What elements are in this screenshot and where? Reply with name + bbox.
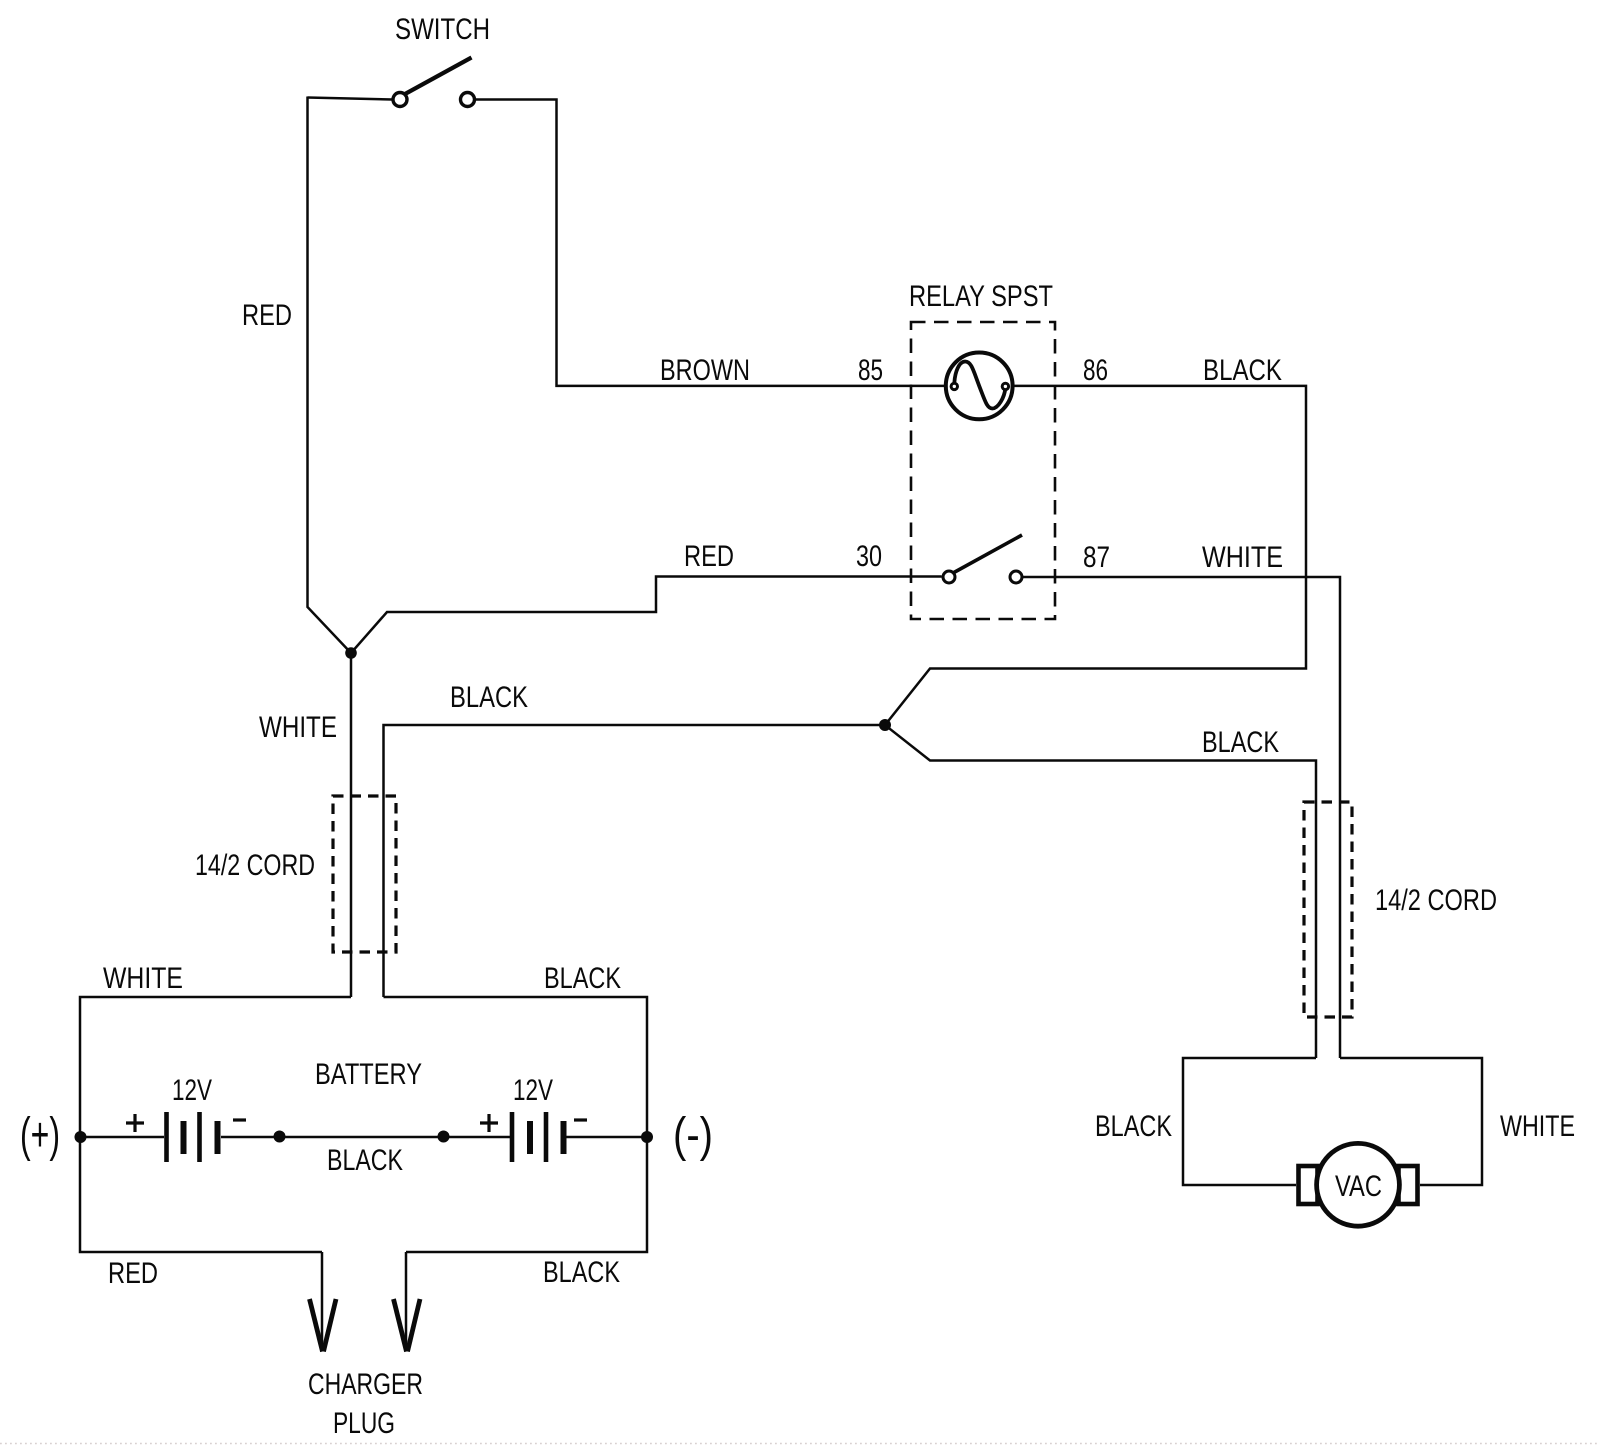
svg-text:14/2 CORD: 14/2 CORD [195, 849, 315, 882]
node battery (-) terminal [641, 1131, 653, 1143]
charger plug lead left [321, 1252, 324, 1348]
wire white: junction J1 down to battery [350, 653, 353, 997]
motor M1 body [1317, 1143, 1400, 1226]
svg-text:RED: RED [108, 1257, 158, 1290]
node J2 junction [879, 719, 891, 731]
svg-text:CHARGER: CHARGER [308, 1368, 423, 1401]
svg-text:BROWN: BROWN [660, 354, 750, 387]
svg-text:RELAY SPST: RELAY SPST [909, 280, 1053, 313]
wire white: relay pin 87 to vac motor drop [1023, 577, 1340, 1058]
charger plug lead right [405, 1252, 408, 1348]
node battery mid left [274, 1131, 286, 1143]
wire red vertical from switch to junction [308, 97, 352, 654]
node battery (+) terminal [75, 1131, 87, 1143]
svg-text:BLACK: BLACK [1202, 726, 1279, 759]
svg-text:12V: 12V [513, 1074, 553, 1107]
wire black: junction J2 to battery negative drop [384, 725, 886, 997]
wire switch left lead [308, 98, 393, 100]
svg-text:BLACK: BLACK [450, 681, 528, 714]
svg-text:(-): (-) [673, 1109, 713, 1162]
battery cell B1 (12V) [167, 1112, 218, 1162]
svg-text:WHITE: WHITE [259, 711, 337, 744]
relay coil [946, 353, 1013, 420]
svg-text:BLACK: BLACK [544, 962, 621, 995]
svg-text:WHITE: WHITE [1202, 541, 1283, 574]
wire battery internal [80, 1136, 647, 1139]
wire red from junction to relay pin 30 [351, 577, 942, 654]
charger plug arrow right [394, 1299, 421, 1352]
svg-text:12V: 12V [172, 1074, 212, 1107]
motor M1 terminals [1299, 1166, 1418, 1204]
charger plug arrow left [310, 1299, 337, 1352]
battery cell B2 (12V) [512, 1112, 564, 1162]
label - (B1) [233, 1118, 246, 1121]
svg-text:30: 30 [856, 540, 882, 573]
svg-text:86: 86 [1083, 354, 1108, 387]
svg-text:(+): (+) [20, 1109, 60, 1162]
svg-text:RED: RED [684, 540, 734, 573]
wire black: relay pin 86 down-left to junction J2 [885, 386, 1306, 725]
relay contact arm [943, 535, 1022, 583]
cord grommet right (14/2 cord) [1304, 802, 1352, 1017]
svg-text:SWITCH: SWITCH [395, 13, 490, 46]
svg-text:BLACK: BLACK [1203, 354, 1282, 387]
node J1 junction [345, 647, 357, 659]
cord grommet left (14/2 cord) [333, 796, 396, 952]
svg-text:PLUG: PLUG [333, 1407, 395, 1440]
svg-text:14/2 CORD: 14/2 CORD [1375, 884, 1497, 917]
svg-text:RED: RED [242, 299, 292, 332]
wire black: junction J2 to vac motor drop [885, 725, 1316, 1058]
svg-text:87: 87 [1083, 541, 1110, 574]
wire brown: switch right to relay pin 85 [476, 100, 945, 386]
node battery mid right [438, 1131, 450, 1143]
page edge dotted line [0, 1443, 1600, 1445]
label - (B2) [574, 1118, 587, 1121]
relay K1 dashed box [911, 322, 1055, 619]
svg-text:BLACK: BLACK [1095, 1110, 1172, 1143]
label + (B2) [480, 1114, 498, 1132]
battery enclosure [80, 997, 647, 1252]
svg-text:WHITE: WHITE [103, 962, 183, 995]
svg-text:BLACK: BLACK [327, 1144, 403, 1177]
svg-text:BATTERY: BATTERY [315, 1058, 422, 1091]
svg-text:VAC: VAC [1335, 1170, 1382, 1203]
vac enclosure [1183, 1058, 1482, 1185]
svg-text:WHITE: WHITE [1500, 1110, 1575, 1143]
svg-text:85: 85 [858, 354, 883, 387]
svg-text:BLACK: BLACK [543, 1256, 620, 1289]
switch S1 [393, 58, 475, 107]
label + (B1) [126, 1114, 144, 1132]
